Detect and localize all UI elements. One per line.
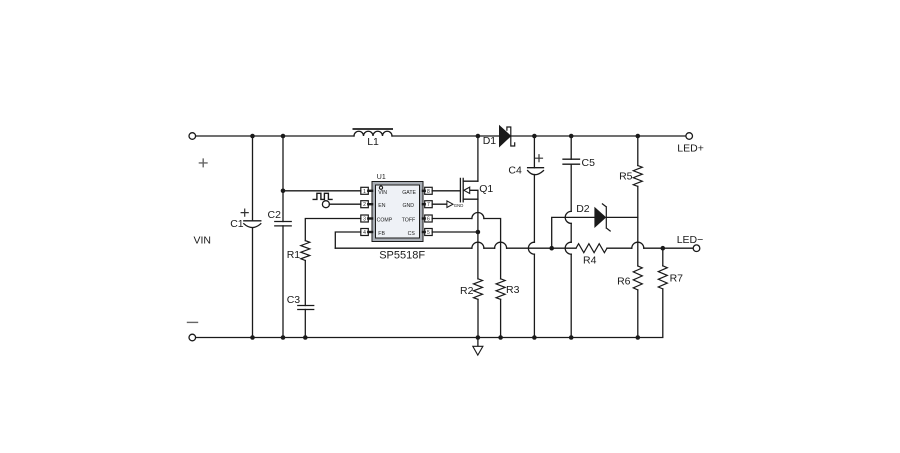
label - polarity [188,321,198,323]
junction C4 bottom [532,335,537,340]
wire Q1 drain up [477,136,479,181]
transistor Q1 NMOS [460,178,478,201]
terminal EN input [322,201,329,208]
wire C3 to ground rail [304,310,306,338]
wire GATE pin8 to Q1 gate [432,190,460,192]
svg-text:GND: GND [402,203,414,209]
svg-text:C5: C5 [582,157,596,169]
U1 pin 5 box [423,229,432,237]
svg-text:3: 3 [363,217,366,223]
junction CS [476,230,481,235]
capacitor C1 polarized [252,136,254,338]
wire hop C5 over D2 wire [565,211,571,223]
wire top rail left [196,135,354,137]
resistor R3 [496,279,505,300]
U1 pin 3 box [361,215,372,223]
svg-text:TOFF: TOFF [402,217,415,223]
wire bottom ground rail [196,337,638,339]
resistor R7 [662,248,664,266]
U1 pin 7 box [423,201,432,209]
svg-text:D1: D1 [483,135,497,147]
svg-text:FB: FB [378,231,385,237]
junction R5 top [636,134,641,139]
junction FB-D2 anode [549,246,554,251]
svg-text:R4: R4 [583,254,597,266]
svg-text:D2: D2 [576,203,590,215]
wire EN to pin2 [329,203,360,205]
wire hop C5 over FB rail [565,242,571,254]
junction C5 bottom [569,335,574,340]
resistor R6 [633,266,642,290]
svg-text:COMP: COMP [377,217,393,223]
U1 pin 2 box [361,201,372,209]
wire TOFF pin6 to R3 [432,219,500,279]
terminal LED+ [686,133,693,140]
wire hop FB over R2 line [472,242,484,248]
ground symbol [477,338,479,347]
svg-text:C4: C4 [508,165,522,177]
capacitor C3 [298,306,314,310]
svg-text:5: 5 [427,230,430,236]
wire R6 to ground rail [637,290,639,338]
svg-text:C1: C1 [230,218,244,230]
wire hop C4 over FB rail [528,242,534,254]
wire FB pin4 loop [335,232,361,248]
U1 pin 1 box [361,187,372,195]
U1 pin1 index dot [379,186,382,189]
junction VIN-C2 [281,189,286,194]
junction R2 bottom [476,335,481,340]
wire L1 to D1 [392,135,500,137]
svg-text:SP5518F: SP5518F [379,250,425,262]
wire hop TOFF over Q1 source line [472,213,484,219]
wire R3 to ground rail [500,299,502,337]
capacitor C4 polarized [533,136,535,338]
wire CS pin5 to source line [432,231,478,233]
svg-text:R3: R3 [506,284,520,296]
svg-text:R5: R5 [619,170,633,182]
junction C1 bottom [250,335,255,340]
diode D1 schottky [500,126,511,146]
wire D1 to LED+ [511,135,686,137]
junction C5 top [569,134,574,139]
pulse waveform symbol [313,193,332,199]
label + polarity [199,159,207,167]
junction C3 bottom [303,335,308,340]
svg-text:CS: CS [408,231,416,237]
wire R2 to ground rail [477,299,479,337]
svg-text:8: 8 [427,189,430,195]
capacitor C2 [282,136,284,338]
terminal VIN+ input [189,133,196,140]
junction R6 bottom [636,335,641,340]
svg-text:GND: GND [454,203,464,208]
svg-text:C2: C2 [268,209,282,221]
wire R5 to R6 [637,186,639,266]
U1 pin 8 box [423,187,432,195]
wire D2 cathode to R5 line [606,216,638,218]
wire hop FB over R3 line [495,242,507,248]
U1 pin 4 box [361,229,372,237]
IC U1 SP5518F body [372,182,423,242]
junction LED- node [661,246,666,251]
svg-text:7: 7 [427,202,430,208]
junction C1 top [250,134,255,139]
wire R7 to ground rail [638,289,663,338]
terminal VIN- input [189,334,196,341]
diode D2 zener [595,208,606,227]
svg-text:LED−: LED− [677,234,704,246]
resistor R4 [576,244,607,253]
svg-text:VIN: VIN [194,235,212,247]
svg-text:C3: C3 [287,294,301,306]
capacitor C5 [570,136,572,338]
wire COMP pin3 to R1 [305,219,361,241]
resistor R2 [474,279,483,300]
wire VIN pin1 to C2 [283,190,361,192]
junction C4 top [532,134,537,139]
svg-text:4: 4 [363,230,366,236]
svg-text:GATE: GATE [402,190,416,196]
svg-text:Q1: Q1 [479,183,493,195]
U1 pin 6 box [423,215,432,223]
svg-text:R6: R6 [617,276,631,288]
svg-text:U1: U1 [377,174,386,181]
resistor R5 [637,136,639,166]
svg-text:6: 6 [427,217,430,223]
wire Q1 source down [477,199,479,279]
junction C2 top [281,134,286,139]
wire FB rail [335,247,693,249]
svg-text:R1: R1 [287,249,301,261]
wire hop FB over R5 line [632,242,644,248]
wire R1 to C3 [304,261,306,306]
junction Q1 drain [476,134,481,139]
svg-text:1: 1 [363,189,366,195]
wire D2 anode branch [552,217,595,248]
ground flag GND pin7 [432,203,447,205]
svg-text:EN: EN [378,203,385,209]
junction R3 bottom [498,335,503,340]
svg-text:VIN: VIN [378,190,387,196]
svg-text:LED+: LED+ [677,143,704,155]
svg-text:R7: R7 [670,273,684,285]
svg-text:L1: L1 [367,136,379,148]
terminal LED- [693,245,700,252]
svg-text:R2: R2 [460,285,474,297]
junction C2 bottom [281,335,286,340]
svg-text:2: 2 [363,202,366,208]
inductor L1 [354,131,392,136]
resistor R1 [301,241,310,261]
